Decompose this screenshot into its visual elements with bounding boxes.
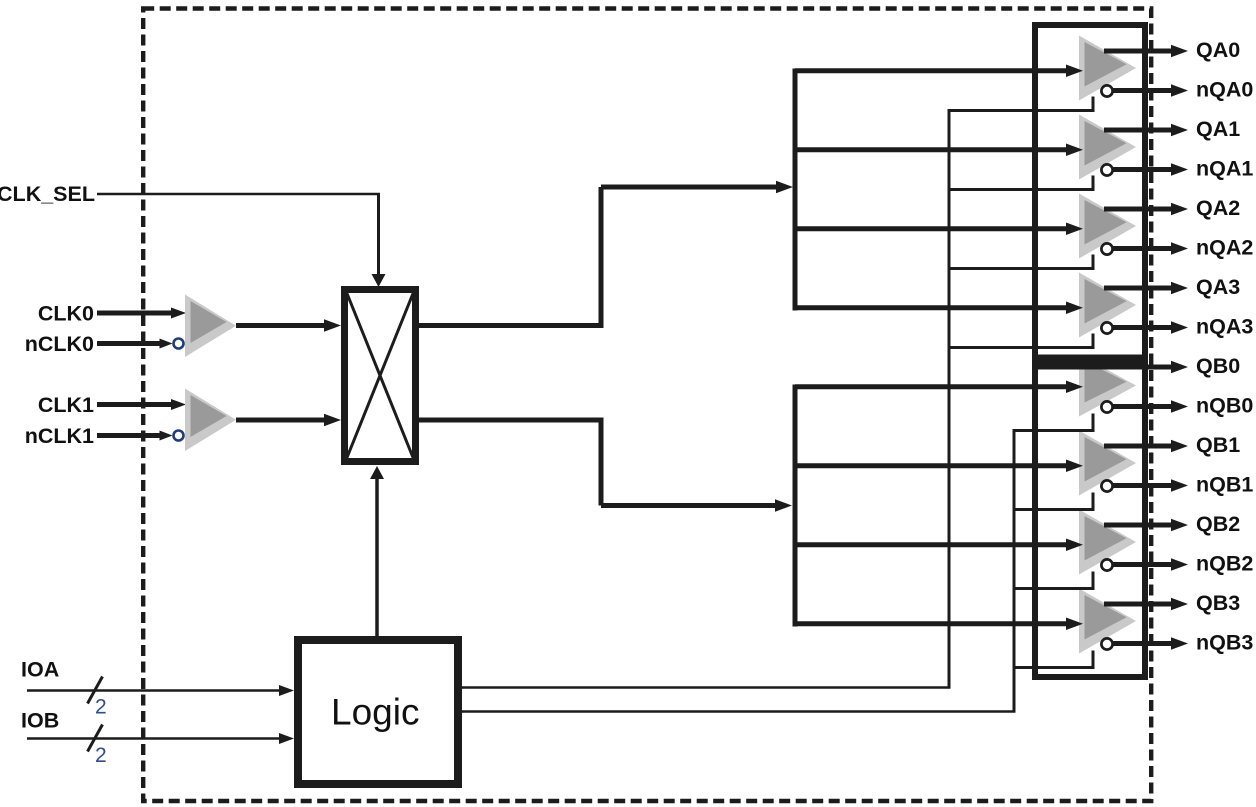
- inverting bubble nQB1: [1101, 480, 1112, 491]
- svg-text:QB2: QB2: [1196, 512, 1240, 536]
- output buffer A0: [1079, 36, 1136, 101]
- bus-width slash IOA: [88, 677, 103, 704]
- output buffer B1: [1079, 431, 1136, 496]
- wire nCLK0 input: [97, 341, 160, 346]
- wire nQ output nQB3: [1113, 641, 1173, 646]
- inverting bubble nQB0: [1101, 401, 1112, 412]
- wire buffer U2 output to mux: [236, 418, 324, 423]
- node bank B fanout bus: [793, 385, 798, 627]
- wire enable stub to buffer A3: [948, 346, 1095, 349]
- wire nQ output nQA0: [1113, 88, 1173, 93]
- wire logic to mux control: [375, 479, 379, 636]
- svg-text:2: 2: [95, 696, 107, 719]
- mux U3 cross diagonal 1: [347, 294, 413, 458]
- wire buffer U1 output to mux: [236, 323, 324, 328]
- wire enable stub to buffer A1: [948, 188, 1095, 191]
- svg-text:2: 2: [95, 744, 107, 767]
- svg-text:nQA3: nQA3: [1196, 315, 1253, 339]
- wire fanout branch to buffer B2: [795, 542, 1066, 547]
- svg-text:QA3: QA3: [1196, 275, 1240, 299]
- wire enable stub to buffer B2: [1013, 587, 1095, 590]
- wire nCLK1 input: [97, 433, 160, 438]
- wire mux output to bank A fanout: [419, 323, 604, 328]
- node bank A fanout bus: [793, 69, 798, 311]
- inverting bubble nQA0: [1101, 85, 1112, 96]
- inverting bubble on nCLK1 input: [174, 431, 184, 441]
- svg-text:QA0: QA0: [1196, 38, 1240, 62]
- bus-width slash IOB: [88, 725, 103, 752]
- input buffer U2 (CLK1): [185, 389, 236, 452]
- svg-text:nQA1: nQA1: [1196, 157, 1253, 181]
- output buffer A2: [1079, 194, 1136, 259]
- svg-text:Logic: Logic: [331, 692, 419, 733]
- inverting bubble nQA1: [1101, 164, 1112, 175]
- wire fanout branch to buffer A1: [795, 147, 1066, 152]
- inverting bubble nQB2: [1101, 559, 1112, 570]
- wire enable stub to buffer B3: [1013, 666, 1095, 669]
- svg-text:nQB3: nQB3: [1196, 631, 1253, 655]
- wire fanout branch to buffer B3: [795, 621, 1066, 626]
- output buffer A1: [1079, 115, 1136, 180]
- chip boundary (dashed): [143, 9, 1151, 802]
- wire enable stub to buffer B0: [1013, 429, 1095, 432]
- inverting bubble nQA3: [1101, 322, 1112, 333]
- wire nQ output nQA1: [1113, 167, 1173, 172]
- output bank B box: [1035, 364, 1145, 677]
- output buffer B0: [1079, 355, 1136, 417]
- svg-text:nQA0: nQA0: [1196, 78, 1253, 102]
- wire nQ output nQB2: [1113, 562, 1173, 567]
- wire nQ output nQB0: [1113, 404, 1173, 409]
- svg-text:IOB: IOB: [21, 709, 59, 733]
- output buffer A3: [1079, 273, 1136, 338]
- svg-text:nQA2: nQA2: [1196, 236, 1253, 260]
- wire nQ output nQA3: [1113, 325, 1173, 330]
- wire CLK_SEL horizontal: [97, 193, 380, 196]
- wire Q output QB2: [1104, 523, 1172, 528]
- wire enable stub to buffer A0: [948, 109, 1095, 112]
- wire nQ output nQB1: [1113, 483, 1173, 488]
- wire CLK_SEL vertical drop: [377, 194, 380, 274]
- svg-text:nQB0: nQB0: [1196, 394, 1253, 418]
- wire Q output QA2: [1104, 207, 1172, 212]
- svg-text:IOA: IOA: [21, 658, 59, 682]
- svg-text:QB3: QB3: [1196, 591, 1240, 615]
- wire logic enable to bank A: [462, 686, 951, 689]
- junction bar between bank A and bank B: [1032, 355, 1148, 370]
- wire fanout branch to buffer A2: [795, 226, 1066, 231]
- wire fanout branch to buffer A0: [795, 68, 1066, 73]
- svg-text:QB0: QB0: [1196, 354, 1240, 378]
- svg-text:nQB1: nQB1: [1196, 473, 1253, 497]
- svg-text:CLK1: CLK1: [38, 393, 94, 417]
- arrow into mux select input: [372, 274, 386, 287]
- svg-text:CLK_SEL: CLK_SEL: [0, 182, 95, 206]
- svg-text:CLK0: CLK0: [38, 302, 94, 326]
- input buffer U1 (CLK0): [185, 295, 236, 358]
- mux U3 cross diagonal 2: [347, 294, 413, 458]
- logic block U4: [298, 640, 458, 784]
- wire IOB input: [27, 737, 280, 740]
- wire Q output QA0: [1104, 49, 1172, 54]
- wire CLK0 input: [97, 311, 171, 316]
- wire enable stub to buffer A2: [948, 267, 1095, 270]
- svg-text:QA2: QA2: [1196, 196, 1240, 220]
- svg-text:nCLK1: nCLK1: [25, 424, 94, 448]
- mux U3 box: [345, 290, 416, 462]
- wire fanout branch to buffer A3: [795, 305, 1066, 310]
- wire mux output to bank B fanout: [419, 418, 604, 423]
- wire Q output QB0: [1104, 365, 1172, 370]
- wire fanout branch to buffer B0: [795, 384, 1066, 389]
- inverting bubble on nCLK0 input: [174, 339, 184, 349]
- wire fanout branch to buffer B1: [795, 463, 1066, 468]
- wire Q output QB1: [1104, 444, 1172, 449]
- inverting bubble nQB3: [1101, 638, 1112, 649]
- wire logic enable to bank B: [462, 710, 1016, 713]
- svg-text:QB1: QB1: [1196, 433, 1240, 457]
- wire Q output QA1: [1104, 128, 1172, 133]
- svg-text:nQB2: nQB2: [1196, 552, 1253, 576]
- wire IOA input: [27, 689, 280, 692]
- svg-text:QA1: QA1: [1196, 117, 1240, 141]
- wire nQ output nQA2: [1113, 246, 1173, 251]
- wire Q output QA3: [1104, 286, 1172, 291]
- output buffer B3: [1079, 589, 1136, 654]
- output buffer B2: [1079, 510, 1136, 575]
- svg-text:nCLK0: nCLK0: [25, 332, 94, 356]
- output bank A box: [1035, 25, 1145, 358]
- wire CLK1 input: [97, 402, 171, 407]
- wire enable stub to buffer B1: [1013, 508, 1095, 511]
- inverting bubble nQA2: [1101, 243, 1112, 254]
- wire Q output QB3: [1104, 602, 1172, 607]
